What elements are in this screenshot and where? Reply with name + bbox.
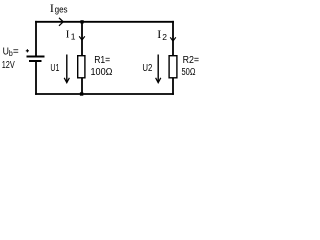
arrow I2 (on right wire): [170, 37, 176, 41]
svg-text:U1: U1: [50, 63, 59, 74]
arrow U1 (voltage arrow): [64, 55, 69, 83]
svg-text:I: I: [50, 1, 54, 15]
svg-text:12V: 12V: [2, 60, 15, 71]
svg-text:2: 2: [162, 32, 167, 42]
wire branch1 lower (from R1): [81, 78, 83, 95]
svg-text:R1=: R1=: [94, 55, 110, 66]
svg-text:Ub: Ub: [3, 47, 14, 59]
battery Ub long plate (+): [27, 56, 45, 58]
wire bottom: [35, 93, 174, 95]
node junction bottom: [80, 92, 83, 95]
battery plus sign: [26, 49, 29, 52]
node junction top: [80, 20, 83, 23]
wire branch1 upper (to R1): [81, 21, 83, 56]
arrow I1 (on branch wire): [79, 36, 85, 40]
wire left lower (source bottom lead): [35, 62, 37, 95]
battery Ub short plate (-): [29, 60, 42, 62]
svg-text:=: =: [13, 47, 19, 58]
arrow Iges (on top wire): [59, 18, 63, 26]
svg-text:50Ω: 50Ω: [182, 67, 196, 78]
svg-text:I: I: [66, 29, 70, 41]
resistor R2: [169, 56, 177, 78]
svg-text:100Ω: 100Ω: [91, 67, 113, 78]
wire right upper (to R2): [172, 21, 174, 56]
wire right lower (from R2): [172, 78, 174, 95]
arrow U2 (voltage arrow): [156, 55, 161, 83]
wire top: [35, 21, 174, 23]
svg-text:1: 1: [71, 32, 76, 42]
svg-text:U2: U2: [142, 63, 152, 74]
svg-text:R2=: R2=: [183, 55, 200, 66]
svg-text:I: I: [157, 27, 161, 41]
wire left upper (source top lead): [35, 21, 37, 56]
svg-text:ges: ges: [55, 5, 68, 15]
resistor R1: [78, 56, 85, 78]
